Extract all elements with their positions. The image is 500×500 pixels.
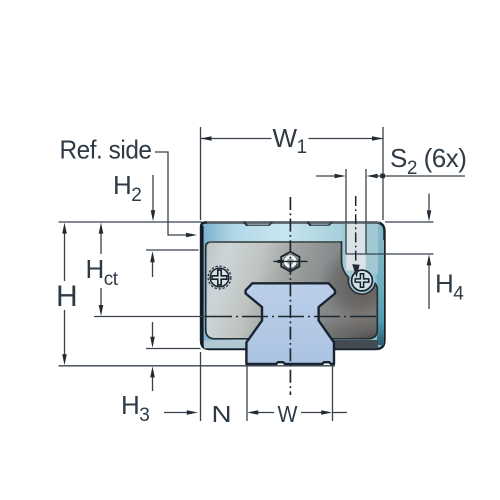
- horizontal centerline: [206, 316, 377, 318]
- top surface line right: [385, 221, 434, 223]
- block right face shadow: [377, 240, 384, 345]
- Ref. side leader: [155, 152, 190, 235]
- extension line below block left: [200, 352, 202, 421]
- arrow Hct bottom: [99, 305, 104, 316]
- arrow H4 bottom: [427, 254, 432, 265]
- S2 hole centerline: [355, 196, 357, 262]
- end cap recess (cyan): [342, 224, 379, 295]
- body dark corner shading: [270, 242, 380, 342]
- H3 arrow shaft: [152, 376, 154, 391]
- arrow block-bottom down: [150, 337, 155, 348]
- annotation lines: [59, 127, 466, 421]
- block bottom level line: [146, 348, 201, 350]
- carriage outer block: [201, 223, 385, 350]
- light bottom strip left of rail: [204, 341, 247, 349]
- svg-text:Ref. side: Ref. side: [60, 135, 152, 165]
- hex nut / grease nipple: [274, 252, 308, 272]
- left screw Phillips: [208, 266, 231, 289]
- S2 dimension arrows tails: [316, 175, 338, 177]
- W dimension tail right: [333, 412, 347, 414]
- W dimension line: [256, 412, 274, 414]
- svg-text:W: W: [278, 401, 298, 427]
- carriage body: [206, 242, 378, 339]
- extension line below rail left: [246, 366, 248, 421]
- Hct level line: [94, 316, 206, 318]
- arrow N right: [187, 410, 198, 415]
- top surface line left: [59, 221, 203, 223]
- arrow H bottom: [62, 354, 67, 365]
- arrow ref-side leader: [186, 233, 197, 238]
- block left edge shadow: [201, 226, 204, 345]
- arrow H2 down: [151, 210, 156, 221]
- H2 lower arrow shaft: [152, 261, 154, 277]
- bottom surface line: [59, 365, 336, 367]
- N dimension tail: [164, 412, 189, 414]
- rail cross-section: [246, 283, 335, 364]
- svg-text:N: N: [212, 401, 232, 427]
- Hct shaft: [100, 230, 102, 254]
- junction dot on S2 leader: [380, 174, 385, 179]
- arrow H2 up (to reference line): [150, 251, 155, 262]
- arrowheads: [62, 136, 431, 415]
- arrow W1 right: [372, 136, 383, 141]
- W1 extension line right: [382, 127, 384, 220]
- arrow S2 right (points left): [367, 174, 378, 179]
- H4 top arrow shaft: [428, 194, 430, 214]
- top edge notch left: [247, 224, 270, 226]
- arrow H top: [62, 223, 67, 234]
- arrow W right: [321, 410, 332, 415]
- arrow shaft to block bottom: [152, 322, 154, 339]
- centerlines dash-dot: [206, 196, 377, 395]
- S2 hole extension lines: [345, 169, 347, 254]
- arrow Hct top: [99, 223, 104, 234]
- arrow H4 top: [427, 210, 432, 221]
- top edge highlight: [207, 221, 380, 223]
- arrow S2 left (points right): [335, 174, 346, 179]
- arrow pointing to screw S2: [352, 264, 359, 278]
- arrow W left: [247, 410, 258, 415]
- H4 shoulder line: [346, 253, 434, 255]
- W1 extension line left: [200, 127, 202, 220]
- dark shading under body right: [330, 340, 378, 349]
- body top edge tone: [208, 241, 341, 243]
- arrow H3 up: [150, 366, 155, 377]
- svg-text:H: H: [56, 280, 77, 313]
- screw counterbore slot (S2 hole): [346, 224, 366, 270]
- H2 lower reference line: [146, 249, 199, 251]
- arrow W1 left: [201, 136, 212, 141]
- H2 arrow shaft: [152, 175, 154, 214]
- extension line below rail right: [332, 366, 334, 421]
- H dimension shaft: [64, 230, 66, 281]
- top edge notch right: [310, 224, 329, 226]
- H4 bottom arrow shaft: [428, 261, 430, 309]
- right screw Phillips: [352, 270, 373, 291]
- vertical centerline: [289, 197, 291, 395]
- W1 dimension line: [201, 138, 272, 140]
